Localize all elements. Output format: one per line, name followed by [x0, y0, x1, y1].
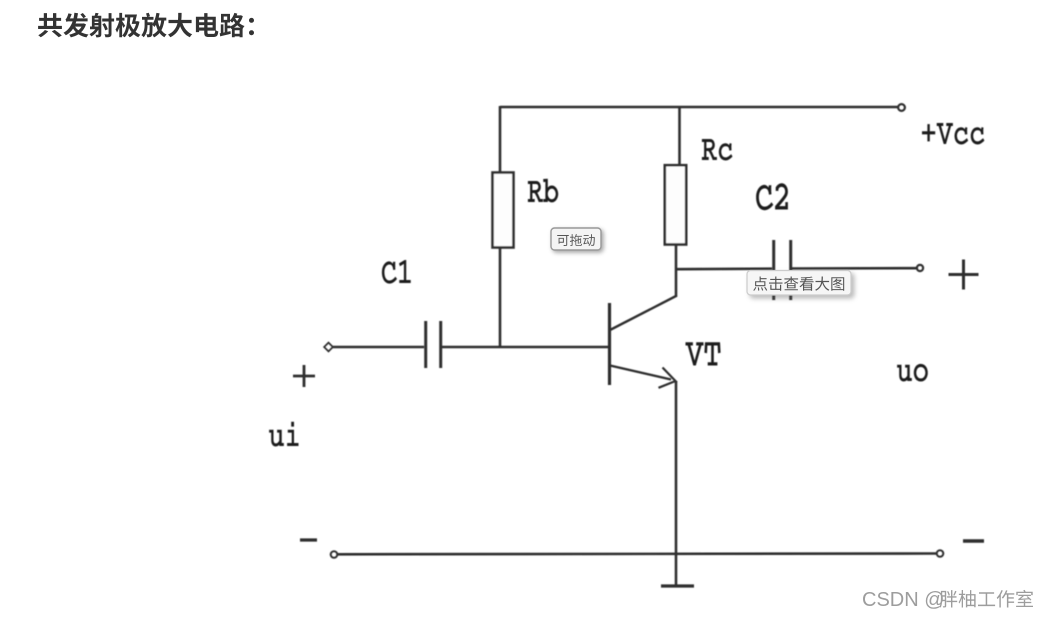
- transistor VT: [610, 296, 678, 388]
- node: output terminal: [917, 265, 923, 271]
- node: bottom-right terminal: [937, 550, 944, 557]
- tooltip 可拖动: [551, 228, 601, 250]
- node: input terminal: [324, 343, 333, 352]
- label uo: [897, 364, 928, 382]
- label C1: [382, 260, 411, 284]
- label Rc: [702, 139, 733, 161]
- wire: input to C1: [333, 346, 424, 349]
- capacitor C2: [774, 240, 791, 300]
- wire: collector node to C2: [676, 267, 772, 270]
- wire: +Vcc top rail: [500, 106, 898, 109]
- label C2: [756, 183, 788, 210]
- capacitor C1: [426, 321, 441, 368]
- svg-text:CSDN @: CSDN @: [862, 589, 945, 611]
- wire: C2 to output terminal: [792, 267, 917, 270]
- label ui: [269, 422, 298, 447]
- node: bottom-left terminal: [331, 551, 338, 558]
- page title 共发射极放大电路：: [38, 13, 254, 38]
- wire: bottom rail: [338, 552, 937, 555]
- wire: C1 to base: [442, 346, 608, 349]
- wire: top rail to Rb: [499, 106, 502, 173]
- wire: Rb to base node: [499, 247, 502, 348]
- wire: Rc to collector: [675, 244, 678, 297]
- node: +Vcc terminal: [898, 104, 905, 111]
- tooltip 点击查看大图: [747, 271, 851, 296]
- polarity - (input): [300, 538, 317, 541]
- polarity + (input): [293, 365, 315, 387]
- polarity + (output): [949, 260, 979, 290]
- label Rb: [528, 179, 558, 203]
- label VT: [686, 342, 721, 365]
- ground: [661, 584, 694, 587]
- resistor Rb: [493, 173, 514, 248]
- label +Vcc: [922, 123, 984, 145]
- watermark CSDN @胖柚工作室: [862, 589, 1033, 611]
- wire: top rail to Rc: [678, 106, 681, 166]
- resistor Rc: [665, 165, 686, 244]
- wire: emitter lead down: [675, 381, 678, 586]
- polarity - (output): [963, 539, 984, 542]
